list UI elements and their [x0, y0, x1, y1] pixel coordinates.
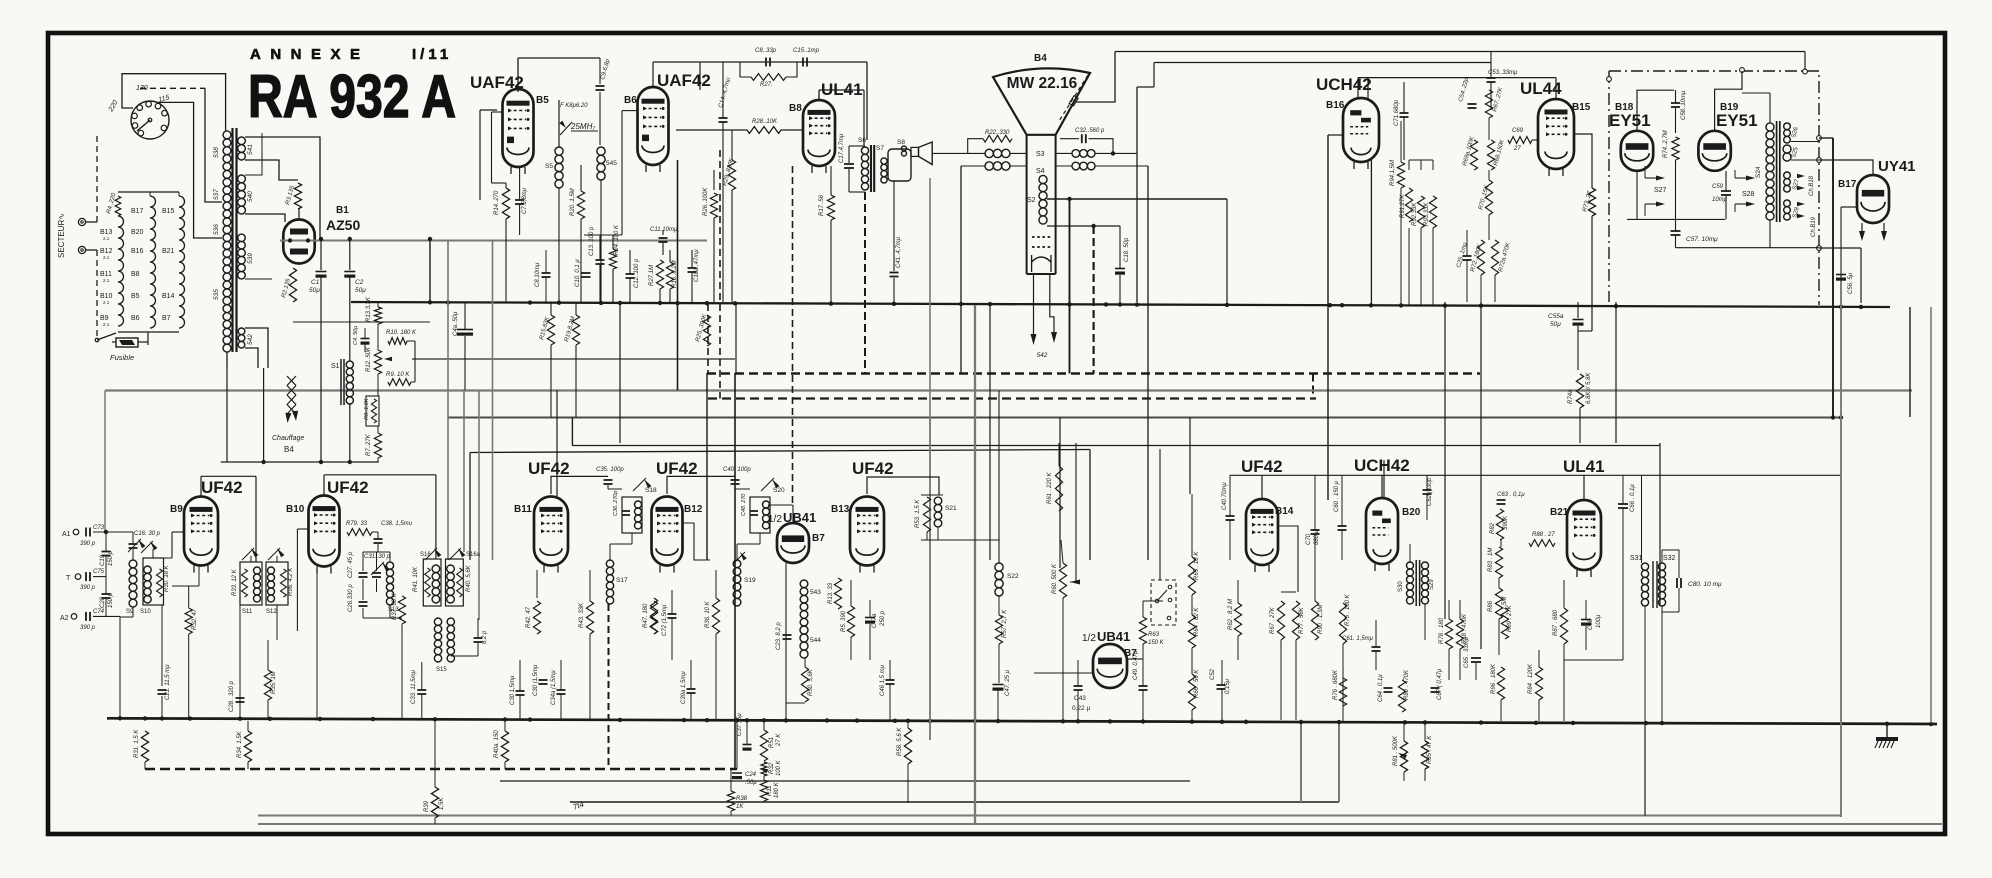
svg-text:S20: S20: [773, 487, 785, 494]
svg-text:Chauffage: Chauffage: [272, 435, 304, 442]
svg-text:390 p: 390 p: [80, 625, 96, 631]
svg-text:C66 . 0,1μ: C66 . 0,1μ: [1630, 484, 1636, 512]
svg-text:UAF42: UAF42: [470, 73, 524, 92]
svg-text:R78 . 180: R78 . 180: [1439, 617, 1445, 644]
svg-text:S2: S2: [1027, 197, 1036, 204]
svg-text:C8..33p: C8..33p: [755, 48, 777, 54]
svg-text:EY51: EY51: [1609, 111, 1651, 130]
svg-text:C59: C59: [1712, 184, 1724, 190]
svg-text:UCH42: UCH42: [1354, 456, 1410, 475]
svg-text:S10: S10: [140, 609, 151, 615]
svg-text:B5: B5: [131, 293, 140, 300]
svg-text:R14..270: R14..270: [494, 190, 500, 215]
svg-text:S6: S6: [858, 137, 866, 144]
svg-text:C55a: C55a: [1548, 313, 1564, 320]
svg-text:RA 932 A: RA 932 A: [248, 63, 456, 130]
svg-text:S16a: S16a: [466, 552, 481, 558]
svg-text:UF42: UF42: [528, 459, 570, 478]
svg-text:544: 544: [810, 637, 821, 644]
svg-text:B14: B14: [162, 293, 175, 300]
svg-text:R94.1,5M: R94.1,5M: [1390, 160, 1396, 186]
svg-text:R8..1,8K: R8..1,8K: [364, 398, 370, 420]
svg-text:R41. 10K: R41. 10K: [413, 566, 419, 592]
svg-text:S5: S5: [545, 163, 553, 170]
svg-text:R75 . 180 K: R75 . 180 K: [1345, 593, 1351, 626]
svg-text:R13. 33: R13. 33: [828, 582, 834, 604]
svg-text:B15: B15: [1572, 102, 1591, 113]
svg-text:R83 . 1M: R83 . 1M: [1488, 548, 1494, 572]
svg-text:C21. 11,5 mμ: C21. 11,5 mμ: [165, 664, 171, 700]
svg-text:C34a (1,5mμ: C34a (1,5mμ: [551, 670, 557, 705]
svg-text:545: 545: [606, 160, 617, 167]
svg-text:538: 538: [213, 147, 220, 158]
svg-text:C8.10mμ: C8.10mμ: [535, 262, 541, 287]
svg-text:I/11: I/11: [412, 46, 452, 63]
svg-text:2.1: 2.1: [103, 255, 110, 260]
svg-text:B7: B7: [162, 315, 171, 322]
svg-text:UF42: UF42: [327, 478, 369, 497]
svg-text:R26..100K: R26..100K: [703, 187, 709, 216]
svg-text:R87 . 680: R87 . 680: [1553, 609, 1559, 636]
svg-text:Ch.B18: Ch.B18: [1809, 175, 1815, 196]
svg-text:R77 . 58K: R77 . 58K: [1299, 606, 1305, 634]
svg-text:.50μ: .50μ: [745, 780, 757, 786]
svg-text:R84 . 120K: R84 . 120K: [1528, 663, 1534, 694]
svg-text:R74a: R74a: [1568, 389, 1574, 404]
svg-text:R40a. 150: R40a. 150: [494, 730, 500, 758]
svg-text:S15: S15: [436, 667, 447, 673]
svg-text:R85 . 47 K: R85 . 47 K: [1427, 735, 1433, 764]
svg-text:C30 1,5mμ: C30 1,5mμ: [510, 675, 516, 705]
svg-text:S8: S8: [897, 139, 905, 146]
svg-text:UF42: UF42: [1241, 457, 1283, 476]
svg-text:C30 (1,5mμ: C30 (1,5mμ: [533, 664, 539, 696]
svg-text:537: 537: [213, 189, 220, 200]
svg-text:C63 . 0,1μ: C63 . 0,1μ: [1497, 492, 1525, 498]
svg-text:T: T: [66, 575, 71, 582]
svg-text:390 p: 390 p: [80, 541, 96, 547]
svg-text:B6: B6: [131, 315, 140, 322]
svg-text:SECTEUR∿: SECTEUR∿: [57, 213, 66, 258]
svg-text:C11.10mμ: C11.10mμ: [650, 227, 678, 233]
svg-text:R11: R11: [767, 785, 773, 796]
svg-text:100μ: 100μ: [1596, 614, 1602, 628]
svg-text:MW 22.16: MW 22.16: [1007, 75, 1078, 92]
svg-text:C56. 5μ: C56. 5μ: [1848, 272, 1854, 294]
svg-text:C18. 50p: C18. 50p: [1124, 237, 1130, 262]
svg-text:R86: R86: [1488, 600, 1494, 612]
svg-text:R39: R39: [424, 800, 430, 812]
svg-text:C52: C52: [1210, 668, 1216, 680]
svg-text:C69: C69: [1512, 128, 1524, 134]
svg-text:R32: R32: [769, 762, 775, 774]
svg-text:C74: C74: [93, 609, 105, 615]
svg-text:F K8μ6.20: F K8μ6.20: [560, 103, 588, 109]
svg-text:543: 543: [810, 589, 821, 596]
svg-text:C12..100 p: C12..100 p: [634, 258, 640, 288]
svg-text:C10. 0,1 μ: C10. 0,1 μ: [575, 259, 581, 287]
svg-text:B13: B13: [831, 504, 850, 515]
svg-text:S19: S19: [744, 577, 756, 584]
svg-text:R31. 1,5 K: R31. 1,5 K: [134, 729, 140, 758]
svg-text:390 p: 390 p: [80, 585, 96, 591]
svg-text:25MH₇: 25MH₇: [570, 122, 596, 131]
svg-text:C4a..50μ: C4a..50μ: [453, 311, 459, 336]
svg-text:542: 542: [1037, 352, 1048, 359]
svg-text:539: 539: [247, 253, 254, 264]
svg-text:C17.4,7mμ: C17.4,7mμ: [839, 133, 845, 163]
svg-text:S12: S12: [266, 609, 277, 615]
svg-text:27 K: 27 K: [776, 733, 782, 747]
svg-text:B1: B1: [336, 205, 349, 216]
svg-text:C47a: C47a: [872, 613, 878, 628]
svg-text:B4: B4: [284, 445, 294, 454]
svg-text:27: 27: [1513, 146, 1521, 152]
svg-text:C2: C2: [355, 279, 364, 286]
svg-text:B11: B11: [514, 504, 532, 515]
svg-text:C40.70mμ: C40.70mμ: [1222, 482, 1228, 510]
svg-text:R62 . 8,2 M: R62 . 8,2 M: [1228, 599, 1234, 630]
svg-text:R33. 12 K: R33. 12 K: [232, 568, 238, 596]
svg-text:540: 540: [247, 191, 254, 202]
svg-text:C15..1mp: C15..1mp: [793, 48, 820, 54]
svg-text:C37 , 5μ: C37 , 5μ: [737, 713, 743, 736]
svg-text:R35. 1M: R35. 1M: [271, 671, 277, 694]
svg-text:B12: B12: [684, 504, 703, 515]
svg-text:AZ50: AZ50: [326, 217, 360, 233]
svg-text:R47. 180: R47. 180: [643, 603, 649, 628]
svg-text:R5. 390: R5. 390: [841, 610, 847, 632]
svg-text:S31: S31: [1630, 555, 1643, 562]
svg-text:C58..10mμ: C58..10mμ: [1681, 90, 1687, 120]
svg-text:0,15μ: 0,15μ: [1225, 678, 1231, 694]
svg-text:50μ: 50μ: [355, 287, 366, 294]
svg-text:2.1: 2.1: [103, 322, 110, 327]
svg-text:EY51: EY51: [1716, 111, 1758, 130]
svg-text:R88 . 27: R88 . 27: [1532, 532, 1555, 538]
svg-text:6,8K // 5,8K: 6,8K // 5,8K: [1586, 372, 1592, 404]
svg-text:B6: B6: [624, 95, 637, 106]
svg-text:UB41: UB41: [783, 510, 816, 525]
svg-text:B17: B17: [1838, 179, 1857, 190]
svg-text:S21: S21: [945, 505, 957, 512]
svg-text:R63: R63: [1148, 632, 1160, 638]
svg-text:UAF42: UAF42: [657, 71, 711, 90]
svg-text:2.1: 2.1: [103, 278, 110, 283]
svg-text:10mμ: 10mμ: [1712, 197, 1728, 203]
svg-text:R30. 18 K: R30. 18 K: [164, 564, 170, 592]
svg-text:R58. 5,6 K: R58. 5,6 K: [897, 727, 903, 756]
svg-text:C75: C75: [93, 569, 105, 575]
svg-text:UF42: UF42: [852, 459, 894, 478]
svg-text:B16: B16: [1326, 100, 1345, 111]
svg-text:R65 . 18 K: R65 . 18 K: [1194, 551, 1200, 580]
svg-text:R57. 2,7 K: R57. 2,7 K: [1002, 609, 1008, 638]
svg-text:1/2: 1/2: [768, 514, 782, 525]
svg-text:B14: B14: [1275, 506, 1294, 517]
svg-text:R37. 68 K: R37. 68 K: [392, 592, 398, 620]
svg-text:180 K: 180 K: [774, 781, 780, 798]
svg-text:S30: S30: [1398, 581, 1404, 592]
svg-text:C32..560 p: C32..560 p: [1075, 128, 1105, 134]
svg-text:C13..100 p: C13..100 p: [589, 226, 595, 256]
svg-text:C38. 1,5mu: C38. 1,5mu: [381, 521, 413, 527]
svg-text:C64 . 0,1μ: C64 . 0,1μ: [1378, 674, 1384, 702]
svg-text:R96. 4,2 K: R96. 4,2 K: [288, 567, 294, 596]
svg-text:R93.33K: R93.33K: [1424, 202, 1430, 226]
svg-text:S3: S3: [1036, 151, 1045, 158]
svg-text:R79. 33: R79. 33: [346, 521, 368, 527]
svg-text:R50. 5,6K: R50. 5,6K: [808, 668, 814, 696]
svg-text:R10. 180 K: R10. 180 K: [386, 330, 417, 336]
svg-text:1K: 1K: [736, 804, 744, 810]
svg-text:UF42: UF42: [201, 478, 243, 497]
svg-text:B7: B7: [812, 533, 825, 544]
svg-text:R60. 500 K: R60. 500 K: [1052, 563, 1058, 594]
svg-text:C26.330 p: C26.330 p: [348, 584, 354, 612]
svg-text:B20: B20: [1402, 507, 1421, 518]
svg-text:R61 . 220 K: R61 . 220 K: [1047, 471, 1053, 504]
svg-text:R81 . 500K: R81 . 500K: [1393, 735, 1399, 766]
svg-text:535: 535: [213, 289, 220, 300]
svg-text:S18: S18: [645, 487, 657, 494]
svg-text:2.1: 2.1: [103, 300, 110, 305]
svg-text:A1: A1: [62, 531, 71, 538]
svg-text:C73: C73: [93, 525, 105, 531]
svg-text:UB41: UB41: [1097, 629, 1130, 644]
svg-text:UL41: UL41: [1563, 457, 1605, 476]
svg-text:S24: S24: [1755, 166, 1762, 178]
svg-text:50μ: 50μ: [309, 287, 320, 294]
svg-text:B9: B9: [170, 504, 183, 515]
svg-text:UF42: UF42: [656, 459, 698, 478]
svg-text:542: 542: [247, 334, 254, 345]
svg-text:S27: S27: [1654, 187, 1667, 194]
svg-text:S29: S29: [1429, 579, 1435, 590]
svg-text:50μ: 50μ: [1550, 321, 1561, 328]
svg-text:R82: R82: [1490, 522, 1496, 534]
svg-text:C46 1,5 mμ: C46 1,5 mμ: [880, 664, 886, 696]
svg-text:R43. 33K: R43. 33K: [579, 602, 585, 628]
svg-text:S1: S1: [331, 363, 340, 370]
svg-text:R96 . 180K: R96 . 180K: [1491, 663, 1497, 694]
svg-text:B11: B11: [100, 271, 112, 278]
svg-text:R27.1M: R27.1M: [649, 265, 655, 286]
svg-text:R42. 47: R42. 47: [526, 606, 532, 628]
svg-text:C47. 25 μ: C47. 25 μ: [1005, 669, 1011, 696]
svg-text:1,5K: 1,5K: [439, 797, 445, 810]
svg-text:C72 (1,5mμ: C72 (1,5mμ: [662, 604, 668, 636]
svg-text:B8: B8: [131, 271, 140, 278]
svg-text:R7..27K: R7..27K: [366, 433, 372, 456]
svg-text:C10a..47mμ: C10a..47mμ: [694, 249, 700, 282]
svg-text:C62 (330p: C62 (330p: [1427, 477, 1433, 506]
svg-text:C49. 0,47μ: C49. 0,47μ: [1133, 650, 1139, 680]
svg-text:C31..30 p: C31..30 p: [364, 554, 391, 560]
svg-text:S17: S17: [616, 577, 628, 584]
svg-text:C43: C43: [1074, 695, 1086, 702]
svg-text:Ch.B19: Ch.B19: [1811, 216, 1817, 237]
svg-text:R53. 1,5 K: R53. 1,5 K: [915, 499, 921, 528]
svg-text:C35. 100p: C35. 100p: [596, 467, 624, 473]
svg-text:B15: B15: [162, 208, 175, 215]
svg-text:C27. 45 p: C27. 45 p: [348, 551, 354, 578]
svg-text:R36. 10 K: R36. 10 K: [705, 600, 711, 628]
svg-text:R80 . 470K: R80 . 470K: [1404, 669, 1410, 700]
svg-text:8,2 p: 8,2 p: [482, 630, 488, 644]
svg-text:C41..4,7mμ: C41..4,7mμ: [896, 236, 902, 268]
svg-text:R92.33K: R92.33K: [1412, 202, 1418, 226]
svg-text:0,22 μ: 0,22 μ: [1072, 705, 1090, 712]
svg-text:C1: C1: [311, 279, 320, 286]
svg-text:S11: S11: [242, 609, 253, 615]
svg-text:R12..50K: R12..50K: [366, 346, 372, 372]
svg-text:R64 . 82 K: R64 . 82 K: [1194, 607, 1200, 636]
svg-text:C28. .320 p: C28. .320 p: [229, 680, 235, 712]
svg-text:C61. 1,5mμ: C61. 1,5mμ: [1342, 636, 1374, 642]
svg-text:R13.3,3K: R13.3,3K: [366, 296, 372, 322]
svg-text:R9. 10 K: R9. 10 K: [386, 372, 410, 378]
svg-text:R28..10K: R28..10K: [752, 119, 778, 125]
svg-text:R51: R51: [769, 737, 775, 748]
svg-text:C39a 1,5mμ: C39a 1,5mμ: [681, 671, 687, 704]
svg-text:C23. 8,2 p: C23. 8,2 p: [776, 622, 782, 650]
svg-text:B10: B10: [100, 293, 113, 300]
svg-text:390K: 390K: [1503, 515, 1509, 530]
svg-text:C16. 30 p: C16. 30 p: [134, 531, 161, 537]
svg-text:UY41: UY41: [1878, 158, 1916, 175]
svg-text:A2: A2: [60, 615, 69, 622]
svg-text:R24..100 K: R24..100 K: [614, 224, 620, 255]
svg-text:C71.680p: C71.680p: [1394, 99, 1400, 126]
svg-text:C70: C70: [1306, 533, 1312, 545]
svg-text:C48. 270: C48. 270: [741, 493, 747, 516]
svg-text:R90 . 1,3M: R90 . 1,3M: [1318, 605, 1324, 634]
svg-text:B5: B5: [536, 95, 549, 106]
svg-text:S7: S7: [876, 145, 884, 152]
svg-text:100 K: 100 K: [776, 759, 782, 776]
svg-text:C33. 11,5mμ: C33. 11,5mμ: [411, 669, 417, 704]
svg-text:536: 536: [213, 224, 220, 235]
svg-text:S32: S32: [1663, 555, 1676, 562]
svg-text:R66 . 56 K: R66 . 56 K: [1194, 669, 1200, 698]
svg-text:R20..1,5M: R20..1,5M: [570, 188, 576, 216]
svg-text:R17..56: R17..56: [819, 194, 825, 216]
svg-text:S4: S4: [1036, 168, 1045, 175]
svg-text:B21: B21: [1550, 507, 1569, 518]
svg-text:B4: B4: [1034, 53, 1047, 64]
svg-text:R38: R38: [736, 796, 748, 802]
svg-text:C4..50μ: C4..50μ: [353, 326, 359, 345]
svg-text:S22: S22: [1007, 573, 1019, 580]
svg-text:Fusible: Fusible: [110, 353, 134, 362]
svg-text:C65 . 33mμ: C65 . 33mμ: [1464, 636, 1470, 668]
svg-text:C24: C24: [745, 772, 757, 778]
svg-text:2.1: 2.1: [103, 236, 110, 241]
svg-text:150 K: 150 K: [1148, 640, 1165, 646]
svg-text:C80. 10 mμ: C80. 10 mμ: [1688, 581, 1722, 588]
svg-text:541: 541: [247, 144, 254, 155]
svg-text:UL44: UL44: [1520, 79, 1562, 98]
svg-text:B13: B13: [100, 229, 113, 236]
svg-text:R76 . 680K: R76 . 680K: [1333, 669, 1339, 700]
svg-text:C57. 10mμ: C57. 10mμ: [1686, 236, 1718, 243]
svg-text:C40. 100p: C40. 100p: [723, 467, 751, 473]
svg-text:B21: B21: [162, 248, 175, 255]
svg-text:C36..270p: C36..270p: [613, 491, 619, 516]
svg-text:B20: B20: [131, 229, 144, 236]
svg-text:B17: B17: [131, 208, 144, 215]
svg-text:R74..2,7M: R74..2,7M: [1663, 130, 1669, 158]
svg-text:R89 . 27K: R89 . 27K: [1507, 604, 1513, 632]
svg-text:C53..33mμ: C53..33mμ: [1488, 70, 1518, 76]
svg-text:B12: B12: [100, 248, 113, 255]
svg-text:B8: B8: [789, 103, 802, 114]
svg-text:S28: S28: [1742, 191, 1755, 198]
svg-text:1/2: 1/2: [1082, 633, 1096, 644]
svg-text:R34. 1,5K: R34. 1,5K: [237, 730, 243, 758]
svg-text:B16: B16: [131, 248, 144, 255]
svg-text:250 p: 250 p: [880, 610, 886, 627]
svg-text:R32. 47: R32. 47: [192, 608, 198, 630]
svg-text:C60 . 150 μ: C60 . 150 μ: [1334, 480, 1340, 512]
svg-text:B9: B9: [100, 315, 109, 322]
svg-text:R40. 5,6K: R40. 5,6K: [466, 564, 472, 592]
svg-text:150 p: 150 p: [108, 550, 114, 566]
svg-text:R27.: R27.: [760, 82, 773, 88]
svg-text:C67 ( 0,47μ: C67 ( 0,47μ: [1437, 668, 1443, 700]
svg-text:C7.6,8mμ: C7.6,8mμ: [522, 187, 528, 214]
svg-text:C68: C68: [1588, 618, 1594, 630]
svg-text:B18: B18: [1615, 102, 1634, 113]
svg-text:B19: B19: [1720, 102, 1739, 113]
svg-text:ANNEXE: ANNEXE: [250, 46, 370, 63]
svg-text:R67 . 27K: R67 . 27K: [1270, 606, 1276, 634]
svg-text:B10: B10: [286, 504, 305, 515]
